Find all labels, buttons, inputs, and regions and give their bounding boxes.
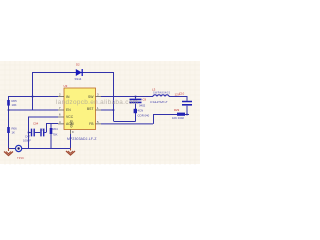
wire input rail vertical x=8.5 bbox=[8, 96, 10, 148]
svg-text:C04: C04 bbox=[33, 122, 39, 126]
wire FB top row y=114 to output bbox=[154, 114, 190, 116]
wire FB riser x=153 bbox=[153, 114, 155, 124]
page background bbox=[0, 0, 200, 200]
wire inductor output segment bbox=[169, 96, 187, 98]
svg-text:TP19: TP19 bbox=[17, 156, 24, 160]
svg-text:MP2303ADJ-LF-Z: MP2303ADJ-LF-Z bbox=[67, 137, 97, 141]
resistor R06 on EN divider (lower) bbox=[7, 127, 10, 133]
label C04 152 bbox=[33, 122, 45, 132]
label R04 75K bbox=[53, 127, 59, 137]
ground symbol chip GND bbox=[66, 148, 75, 155]
svg-text:100nF: 100nF bbox=[23, 139, 31, 143]
wire vertical x=46 AGND to RC row bbox=[46, 124, 48, 133]
wire vertical x=32 input to EN row bbox=[32, 72, 34, 110]
svg-text:10K 0402: 10K 0402 bbox=[172, 116, 184, 120]
wire vertical x=113 bootstrap column bbox=[113, 72, 115, 121]
ground symbol left bbox=[4, 148, 13, 156]
svg-text:R04: R04 bbox=[53, 127, 59, 131]
capacitor C04 plates bbox=[41, 129, 44, 137]
capacitor bootstrap C9 plates bbox=[130, 99, 142, 102]
svg-text:R29: R29 bbox=[174, 108, 180, 112]
chip pin labels bbox=[66, 95, 94, 128]
wire IN net horizontal bbox=[9, 96, 59, 98]
svg-text:D2: D2 bbox=[76, 63, 80, 67]
resistor R04 comp branch bbox=[50, 128, 53, 134]
resistor R09 in FB row bbox=[177, 113, 185, 116]
label R09 10K bbox=[172, 108, 184, 120]
svg-text:C10: C10 bbox=[179, 92, 185, 96]
pin stubs left bbox=[58, 97, 101, 135]
svg-text:0402: 0402 bbox=[139, 104, 146, 108]
wire ground rail bottom bbox=[9, 148, 71, 150]
wire FB pin horizontal bbox=[101, 123, 153, 125]
svg-text:3.3uH/7A/P+T: 3.3uH/7A/P+T bbox=[150, 100, 168, 104]
wire BST staircase bbox=[114, 104, 136, 122]
capacitor C10 output plates bbox=[182, 102, 192, 105]
svg-text:C9: C9 bbox=[143, 98, 147, 102]
wire top bootstrap from input to D2 to BST column bbox=[32, 72, 113, 74]
svg-text:10K: 10K bbox=[12, 103, 17, 107]
svg-text:BST: BST bbox=[87, 107, 94, 111]
wire BST pin horizontal bbox=[101, 109, 113, 111]
wire SW net horizontal bbox=[101, 96, 153, 98]
label R05 bbox=[12, 99, 18, 107]
schematic sheet with grid bbox=[0, 61, 200, 164]
inductor L3 bbox=[153, 95, 169, 97]
wire vertical x=50 comp resistor branch bbox=[50, 124, 52, 149]
wire VCC/COMP net horizontal bbox=[28, 116, 58, 118]
label R06 bbox=[12, 127, 18, 135]
svg-text:SS14: SS14 bbox=[75, 77, 82, 81]
svg-text:SWPA8040S: SWPA8040S bbox=[153, 92, 170, 95]
label bootstrap cap 0402 bbox=[139, 98, 147, 108]
wire AGND net horizontal bbox=[46, 123, 58, 125]
svg-text:152: 152 bbox=[40, 127, 45, 131]
diode D2 bbox=[76, 69, 82, 76]
svg-text:VCC: VCC bbox=[66, 115, 74, 119]
svg-text:landzopcb.en.alibaba.com: landzopcb.en.alibaba.com bbox=[56, 99, 138, 106]
wire EN net horizontal bbox=[9, 109, 59, 111]
svg-text:1K: 1K bbox=[12, 130, 16, 134]
svg-text:FB: FB bbox=[89, 122, 94, 126]
wire bootstrap cap stubs bbox=[135, 96, 137, 99]
resistor R05 on input/EN divider (upper) bbox=[7, 100, 10, 106]
node junction dots bbox=[8, 96, 188, 134]
svg-text:75K: 75K bbox=[53, 133, 58, 137]
label D3 bbox=[138, 109, 150, 118]
pin numbers bbox=[59, 93, 99, 134]
wire vertical x=28 comp branch bbox=[28, 117, 30, 149]
svg-text:EN: EN bbox=[66, 108, 71, 112]
power port circle TP19 bbox=[16, 145, 22, 151]
op-amp / regulator U3 MP2303 body bbox=[64, 88, 96, 130]
label C47 100nF bbox=[23, 135, 31, 143]
svg-text:U3: U3 bbox=[64, 84, 68, 88]
wire comp RC row y=132 bbox=[28, 132, 47, 134]
diode D3 on bootstrap column bbox=[134, 109, 137, 113]
svg-text:4CN: 4CN bbox=[138, 109, 144, 113]
svg-text:GND: GND bbox=[70, 119, 74, 127]
capacitor C47 plates bbox=[32, 129, 35, 137]
wire chip GND pin drop bbox=[70, 134, 72, 148]
svg-text:COR 040: COR 040 bbox=[138, 114, 150, 118]
wire output cap vertical x=187 bbox=[186, 96, 188, 114]
